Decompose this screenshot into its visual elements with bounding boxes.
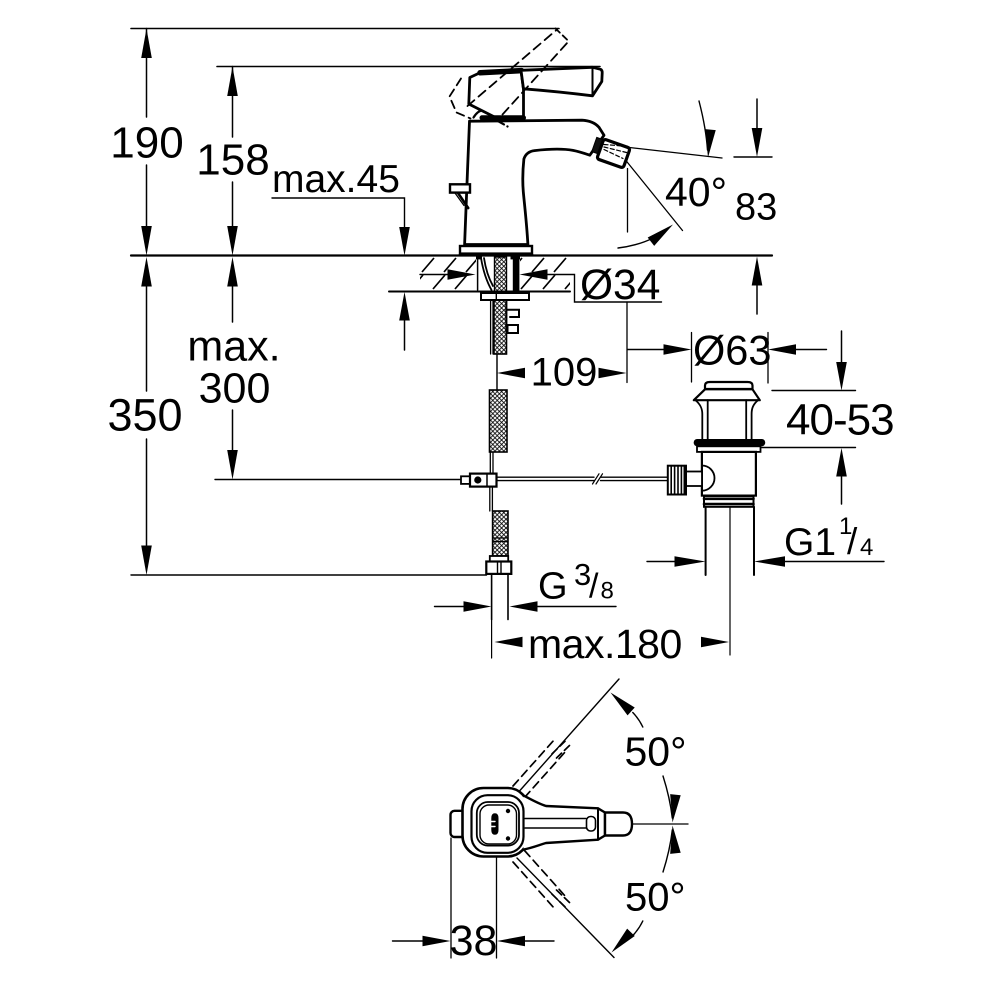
plan keyhole: [491, 813, 498, 835]
deck hole top blocks: [476, 256, 482, 260]
dim max300 arrow up: [227, 257, 238, 287]
dim 158 arrow down: [227, 226, 238, 256]
pull rod middle: [490, 452, 493, 474]
drain tailpipe: [706, 507, 754, 575]
dim 38 right arrow: [497, 936, 525, 947]
svg-text:109: 109: [531, 351, 598, 395]
upper 50 arc end: [663, 776, 672, 818]
dim 83 arrow down: [752, 128, 763, 157]
40deg upper arc: [699, 101, 708, 150]
spray ray A: [630, 148, 723, 159]
dim 83 top tick: [734, 156, 772, 158]
plan lever: [524, 796, 606, 850]
svg-text:8: 8: [601, 578, 614, 605]
nut facets: [498, 562, 502, 575]
dim 109 right arrow: [599, 368, 627, 379]
lower 50 arc end: [663, 830, 672, 872]
dashed head corner bottom: [497, 121, 508, 127]
flange tick: [495, 293, 497, 300]
dim 40-53 bottom tick: [750, 447, 856, 449]
pop-up T block: [470, 474, 497, 487]
40-53 arrow down: [836, 362, 847, 391]
dashed raised handle tip cap: [556, 29, 569, 42]
mounting flange below deck: [481, 293, 529, 300]
dim Ø63 left arrow tail: [628, 349, 665, 351]
plan dots: [506, 809, 510, 813]
svg-text:300: 300: [199, 365, 271, 413]
keyhole notches: [491, 822, 495, 827]
40-53 lower arrow shaft: [841, 477, 843, 505]
braided hose segment C: [493, 511, 508, 556]
spray ray B: [626, 160, 683, 231]
max45 lower arrow shaft: [404, 321, 406, 351]
reference line 350 bottom (hose end level): [131, 574, 487, 576]
pivot dome: [474, 110, 497, 118]
spray fan dashes: [604, 145, 629, 159]
dim Ø34 left arrow: [448, 269, 476, 280]
dim G3/8 left tail: [435, 606, 465, 608]
dim 83 upper arrow shaft: [756, 99, 758, 129]
svg-text:38: 38: [450, 917, 498, 965]
40deg lower arrowhead: [648, 220, 677, 246]
dim 190/350 vertical line: [146, 29, 148, 547]
mounting bracket: [506, 300, 519, 333]
40-53 upper arrow shaft: [841, 331, 843, 363]
svg-text:max.180: max.180: [528, 621, 682, 667]
handle lever arm: [521, 67, 602, 96]
dim Ø63 left arrow: [664, 344, 692, 355]
plan spout tab: [451, 811, 467, 837]
screw neck: [686, 472, 702, 487]
deck top line: [131, 254, 772, 256]
svg-text:/: /: [847, 521, 858, 562]
dim 38 left tail: [393, 940, 424, 942]
pop-up horizontal rod: [497, 477, 669, 480]
dim 190 arrow up: [141, 29, 152, 59]
dim Ø63 extension lines: [692, 333, 769, 384]
plan lever neck lines: [598, 808, 605, 839]
plan body innermost: [480, 805, 517, 844]
deck hatch right: [520, 257, 570, 290]
dashed raised handle edge 2: [503, 42, 569, 115]
svg-text:50°: 50°: [625, 876, 686, 920]
dim 350 arrow down: [141, 546, 152, 576]
svg-text:max.: max.: [187, 323, 280, 371]
faucet base contact line: [460, 253, 532, 255]
plan view lower ray: [517, 858, 614, 958]
reference line max300 bottom (pop-up rod level): [215, 479, 461, 481]
svg-text:Ø63: Ø63: [693, 327, 771, 374]
valve body semicircle: [702, 466, 715, 491]
drain valve body: [702, 452, 756, 496]
G3/8 underline: [538, 606, 617, 608]
dim 350 arrow up: [141, 257, 152, 287]
dim 190 arrow down: [141, 226, 152, 256]
deck hole left cone: [477, 258, 479, 290]
svg-text:190: 190: [110, 119, 183, 168]
plan body inner face: [477, 802, 519, 846]
plan centre line: [633, 823, 688, 825]
dim Ø34 right arrow: [520, 269, 548, 280]
svg-text:50°: 50°: [625, 729, 687, 775]
dim Ø34 leader: [548, 275, 662, 303]
deck hatch left: [420, 257, 476, 290]
lever tip cap line: [592, 67, 594, 96]
rod break marks: [593, 474, 603, 484]
40-53 arrow up: [836, 448, 847, 477]
drain rim flare: [694, 389, 760, 400]
dim max.180 right arrow: [701, 637, 729, 648]
deck hole cone curves: [481, 258, 493, 290]
drain locknut: [697, 446, 761, 452]
hose joint lines: [493, 538, 508, 542]
dim max300 arrow down: [227, 450, 238, 480]
dashed head corner left: [450, 79, 471, 119]
svg-text:83: 83: [735, 187, 777, 229]
faucet base plinth: [460, 246, 532, 254]
dim 83 lower arrow shaft: [756, 286, 758, 315]
drain O-ring: [694, 439, 766, 446]
dim Ø63 right arrow tail: [796, 349, 827, 351]
braided hose segment A: [494, 300, 507, 354]
upper 50 arrow at centerline: [667, 794, 680, 823]
dim Ø34 left arrow tail: [420, 274, 448, 276]
pull rod lower: [490, 487, 493, 511]
G3/8 right arrow: [510, 601, 538, 612]
G3/8 pipe: [492, 574, 508, 620]
dim 158 arrow up: [227, 67, 238, 97]
pull rod upper: [491, 300, 493, 354]
reference line 158 level: [217, 66, 600, 68]
plan lever cylinder: [605, 813, 632, 836]
plan lever inner lines: [525, 819, 586, 829]
svg-text:/: /: [589, 568, 599, 606]
dim max.180 left arrow: [495, 637, 523, 648]
dim 40-53 top tick: [772, 390, 856, 392]
40deg upper arrowhead: [703, 129, 716, 158]
plan view upper dashed lever: [513, 740, 566, 798]
plan view upper ray: [520, 679, 620, 791]
deck hole right bar: [513, 257, 520, 293]
plan lever inner end: [587, 817, 596, 832]
T block divider: [486, 474, 488, 487]
hose nut: [486, 562, 511, 574]
max45 leader underline: [272, 198, 405, 228]
spout aerator connector: [592, 137, 605, 154]
handle head thick bottom edge: [482, 115, 524, 120]
40deg lower arc: [618, 228, 668, 248]
svg-text:158: 158: [196, 136, 269, 185]
drain neck: [696, 400, 759, 439]
lower dashed lever cap: [552, 890, 570, 907]
max180 left extension: [491, 620, 493, 659]
dim 38 left arrow: [423, 936, 451, 947]
dim Ø63 right arrow: [768, 344, 796, 355]
handle head thick top edge: [480, 71, 522, 73]
knurl stripes: [671, 466, 684, 495]
drain collar: [704, 496, 754, 507]
collar thick lines: [704, 499, 754, 504]
dim 109 line: [497, 302, 627, 390]
plan body outer: [463, 788, 529, 857]
pop-up rod left tab: [461, 476, 470, 484]
svg-text:40°: 40°: [665, 169, 727, 215]
svg-text:4: 4: [860, 534, 873, 561]
deck bottom line: [389, 291, 570, 293]
svg-text:max.45: max.45: [272, 158, 400, 201]
dashed raised handle edge 1: [468, 30, 558, 107]
G1 1/4 right arrow: [754, 556, 785, 567]
handle head: [469, 70, 524, 117]
aerator: [597, 139, 630, 168]
dim 158/max300 vertical line: [232, 67, 234, 451]
max45 arrow up below deck: [399, 292, 410, 321]
threaded stud in deck: [495, 257, 507, 292]
braided hose segment B: [490, 390, 508, 452]
dim 109 left arrow: [497, 368, 525, 379]
knurled screw: [668, 466, 686, 495]
faucet body and spout: [465, 120, 604, 244]
svg-text:G1: G1: [784, 521, 836, 564]
svg-text:40-53: 40-53: [786, 396, 894, 445]
hose collar: [490, 556, 508, 562]
G1 1/4 underline: [785, 561, 884, 563]
G1 1/4 left arrow: [675, 556, 706, 567]
svg-text:Ø34: Ø34: [580, 262, 660, 309]
dim 83 arrow up below: [752, 257, 763, 286]
svg-text:350: 350: [107, 390, 182, 441]
dim 38 right tail: [525, 940, 554, 942]
tailpipe centre line: [729, 507, 731, 655]
lower 50 arrow on ray: [608, 929, 635, 957]
upper 50 arrow on ray: [607, 689, 635, 716]
drain cap: [705, 382, 753, 389]
lower 50 arc start: [633, 921, 643, 936]
lower 50 arrow at centerline: [667, 825, 680, 854]
upper 50 arc start: [633, 713, 643, 728]
plan view lower dashed lever: [513, 851, 566, 909]
max45 arrow down to deck: [399, 227, 410, 256]
G3/8 left arrow: [464, 601, 492, 612]
drain pull knob: [450, 184, 470, 192]
svg-text:G: G: [538, 566, 568, 608]
reference line top (190 level): [131, 28, 559, 30]
plumb line below aerator: [627, 169, 629, 233]
drain pull strut: [458, 193, 468, 208]
upper dashed lever cap: [552, 741, 570, 758]
T block pin: [474, 476, 481, 483]
hose centre line gap: [496, 354, 498, 390]
plan body ring2: [472, 795, 524, 853]
dim G1 1/4 left tail: [647, 561, 675, 563]
dim 38 extension lines: [451, 838, 497, 958]
